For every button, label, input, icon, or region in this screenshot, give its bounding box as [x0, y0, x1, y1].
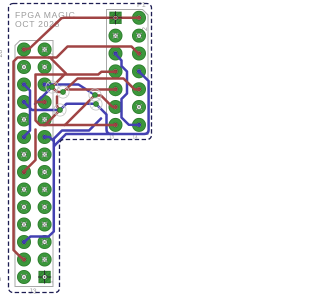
connector J3 pad 18	[17, 130, 30, 143]
connector J3 pad 17	[38, 130, 51, 143]
svg-text:J3: J3	[29, 287, 37, 296]
connector J3 pad 8	[17, 218, 30, 231]
connector J3 pad 15	[38, 148, 51, 161]
connector J3 pad 19	[38, 113, 51, 126]
via V4	[90, 98, 102, 110]
connector J3 pad 1 drill cross	[38, 270, 51, 283]
connector P1 pad 6	[132, 47, 145, 60]
connector J3 pad 2	[17, 270, 30, 283]
wire bottom-layer pad J3-24 to pad J3-18	[24, 85, 30, 137]
via V2	[57, 86, 69, 98]
via V1	[46, 81, 58, 93]
wire top-layer stub into via V5	[57, 97, 60, 111]
connector J3 pad 24	[17, 78, 30, 91]
wire top-layer stub to pad J3-21	[36, 101, 45, 104]
wire top-layer pad P1-7 and P1-13 riser	[36, 72, 116, 125]
connector J3 pad 4	[17, 253, 30, 266]
via V3	[89, 89, 101, 101]
connector P1 pad 11	[109, 100, 122, 113]
wire top-layer via V1 to via V2	[52, 87, 63, 92]
svg-text:2: 2	[0, 277, 3, 281]
board outline (dimension layer, dashed)	[9, 4, 152, 293]
connector P1 pad 10	[132, 83, 145, 96]
connector P1 pad 14	[132, 118, 145, 131]
connector P1 pad 1 (square pin-1 pad)	[110, 12, 121, 23]
wire bottom-layer via V4 drop to notch bus	[96, 104, 114, 134]
via V5	[54, 104, 66, 116]
connector J3 pad 6	[17, 235, 30, 248]
wire top-layer via V3 to riser junction	[65, 95, 96, 125]
connector P1 pad 4	[132, 29, 145, 42]
connector P1 pad 9	[109, 83, 122, 96]
wire bottom-layer via V1 stub	[35, 87, 52, 104]
connector J3 pad 23	[38, 78, 51, 91]
connector P1 pad 5	[109, 47, 122, 60]
connector P1 pad 7	[109, 65, 122, 78]
svg-text:28: 28	[0, 50, 4, 58]
wire top-layer pad P1-6 zigzag to left edge	[14, 47, 140, 260]
connector J3 pad 21	[38, 95, 51, 108]
connector P1 pad 8	[132, 65, 145, 78]
connector J3 pad 14	[17, 165, 30, 178]
silkscreen connector J3 outline	[15, 41, 53, 287]
wire bottom-layer pad P1-5 to pad P1-14	[116, 54, 140, 125]
wire bottom-layer pad P1-8 to notch bus	[54, 72, 149, 147]
connector P1 pad 1 drill cross	[109, 11, 122, 24]
wire bottom-layer pad J3-23 to via V3	[45, 85, 95, 96]
wire top-layer via V3 to pad P1-11	[95, 96, 116, 108]
connector J3 pad 16	[17, 148, 30, 161]
connector J3 pad 26	[17, 60, 30, 73]
connector J3 pad 28	[17, 43, 30, 56]
connector J3 pad 27	[38, 43, 51, 56]
wire bottom-layer via V5 to via V4	[60, 104, 96, 110]
silkscreen connector P1 outline	[107, 10, 149, 135]
wire bottom-layer pad J3-17 join	[45, 137, 54, 141]
connector J3 pad 11	[38, 183, 51, 196]
connector J3 pad 12	[17, 183, 30, 196]
connector J3 pad 9	[38, 200, 51, 213]
wire top-layer to pad P1-9	[68, 88, 116, 91]
connector J3 pad 13	[38, 165, 51, 178]
connector J3 pad 20	[17, 113, 30, 126]
wire top-layer junction diagonal	[50, 58, 66, 74]
wire top-layer riser to pad J3-14	[24, 130, 36, 172]
svg-text:P1: P1	[137, 0, 146, 9]
wire top-layer pad J3-28 to pad P1-2	[24, 18, 139, 50]
connector P1 pad 2	[132, 11, 145, 24]
connector P1 pad 13	[109, 118, 122, 131]
connector J3 pad 25	[38, 60, 51, 73]
wire top-layer via V5 to riser junction	[44, 110, 60, 125]
connector J3 pad 3	[38, 253, 51, 266]
connector J3 pad 5	[38, 235, 51, 248]
wire bottom-layer notch bus upper	[24, 119, 101, 243]
connector J3 pad 22	[17, 95, 30, 108]
wire top-layer branch to via V1	[52, 75, 65, 88]
connector P1 pad 3	[109, 29, 122, 42]
wire top-layer via V2 to pad P1-10	[63, 79, 139, 93]
connector P1 pad 12	[132, 100, 145, 113]
connector J3 pad 1 (square pin-1 pad)	[39, 271, 50, 282]
connector J3 pad 10	[17, 200, 30, 213]
wire bottom-layer pad J3-22 to via V5	[24, 102, 60, 110]
connector J3 pad 7	[38, 218, 51, 231]
